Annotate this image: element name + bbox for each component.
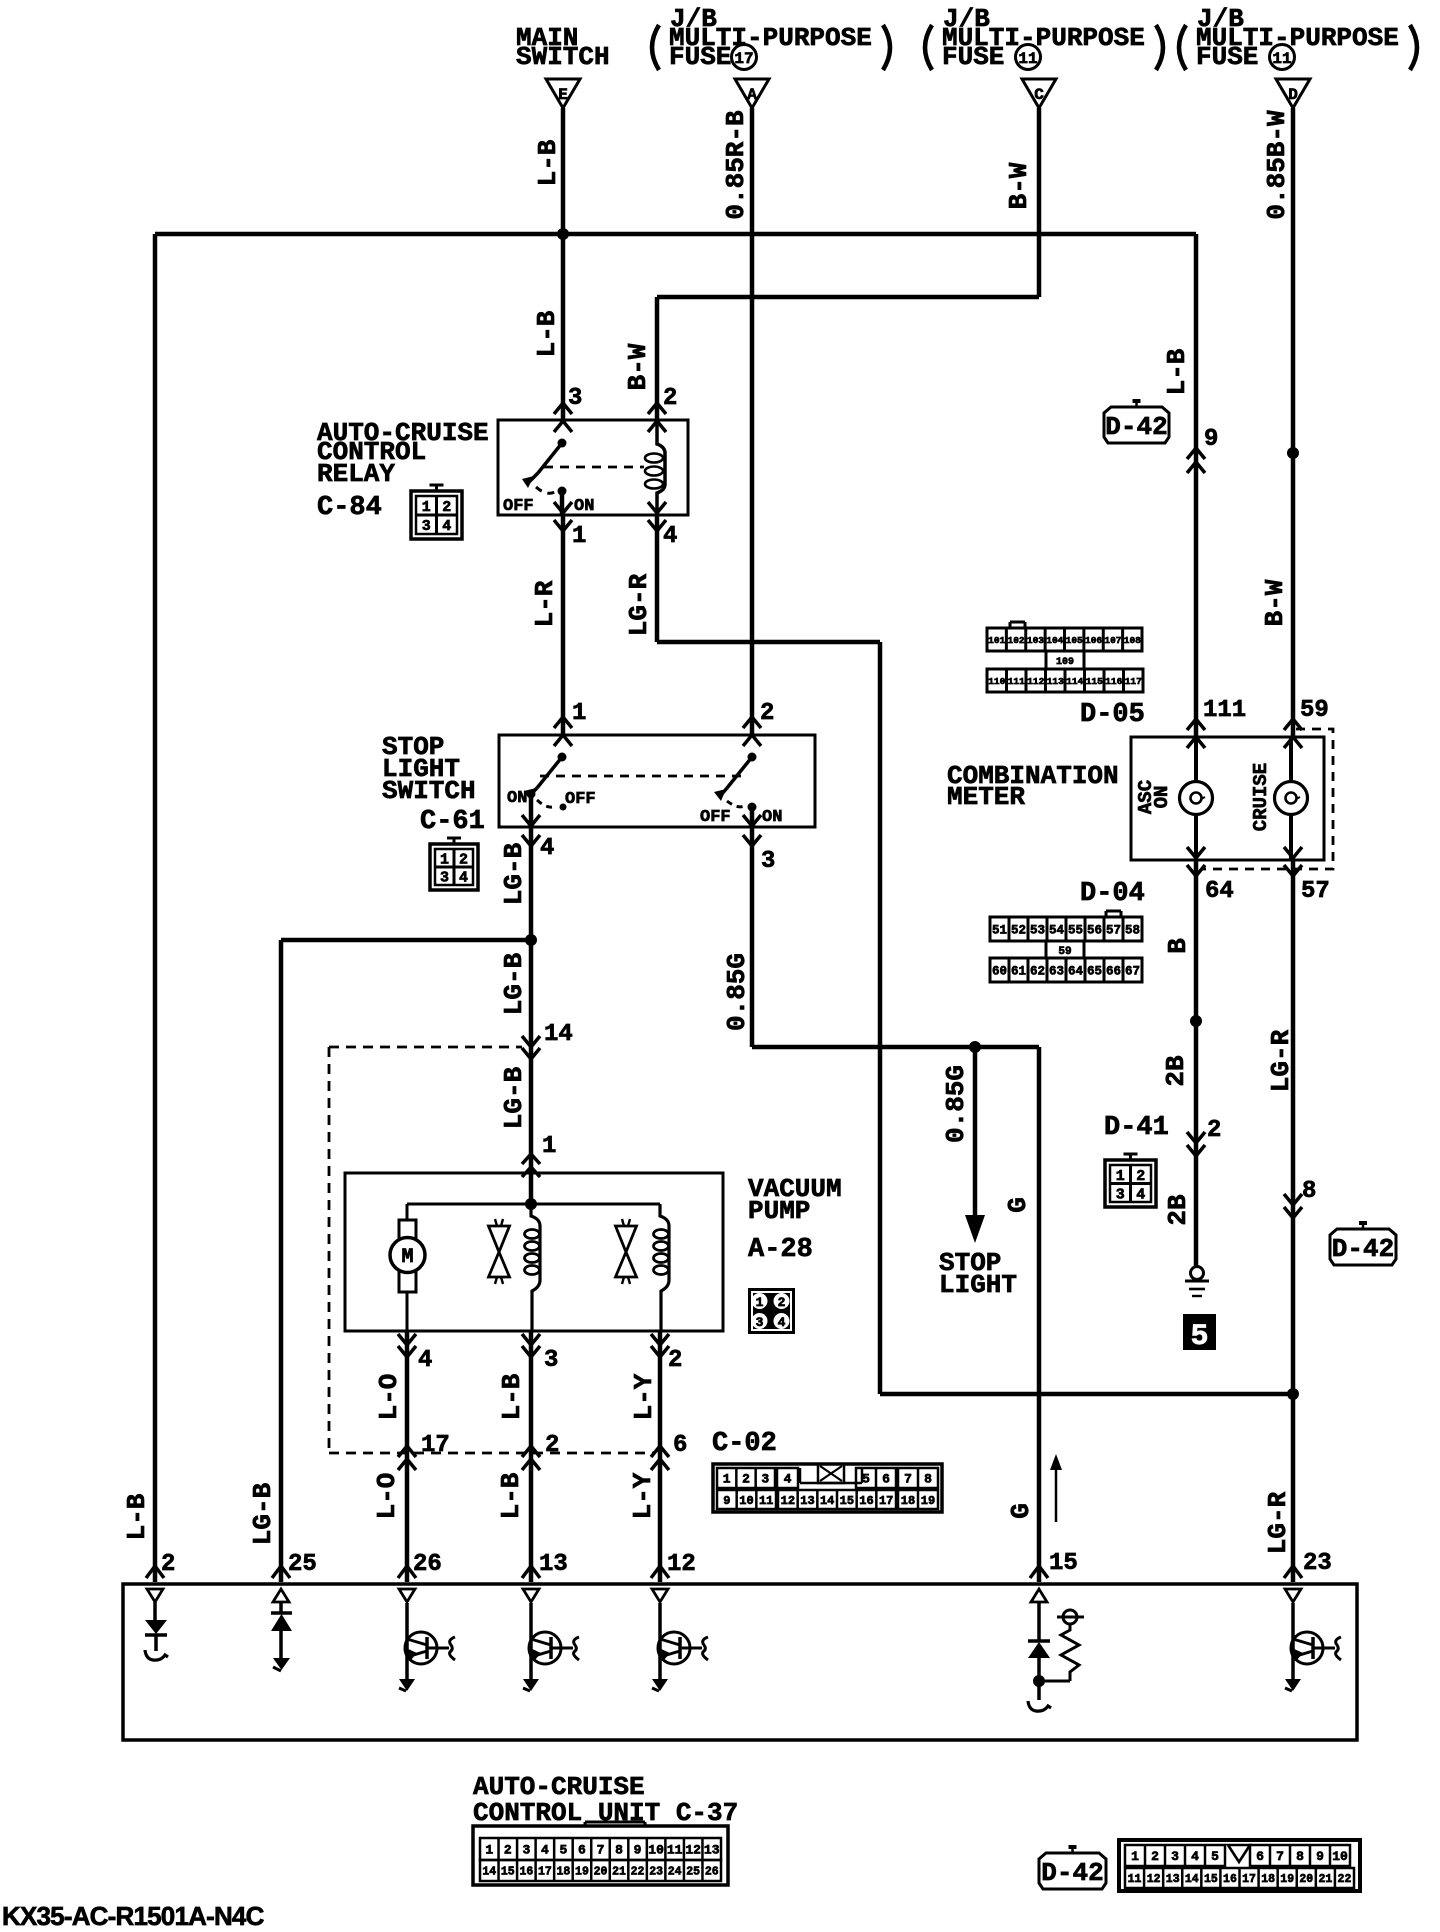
svg-text:26: 26 bbox=[705, 1866, 719, 1879]
svg-text:16: 16 bbox=[859, 1494, 873, 1508]
svg-text:FUSE: FUSE bbox=[1196, 42, 1258, 72]
svg-text:108: 108 bbox=[1124, 635, 1141, 646]
svg-text:2: 2 bbox=[742, 1472, 750, 1487]
svg-text:14: 14 bbox=[820, 1494, 834, 1508]
svg-text:18: 18 bbox=[901, 1494, 915, 1508]
svg-text:L-B: L-B bbox=[122, 1493, 152, 1540]
svg-text:D-04: D-04 bbox=[1080, 879, 1145, 909]
svg-text:2: 2 bbox=[663, 385, 677, 412]
svg-text:2: 2 bbox=[459, 852, 468, 869]
svg-text:104: 104 bbox=[1046, 635, 1063, 646]
svg-text:111: 111 bbox=[1203, 697, 1246, 724]
svg-text:14: 14 bbox=[1185, 1873, 1199, 1886]
svg-text:3: 3 bbox=[422, 518, 431, 535]
svg-text:3: 3 bbox=[756, 1315, 764, 1330]
svg-text:OFF: OFF bbox=[503, 497, 534, 516]
svg-text:105: 105 bbox=[1066, 635, 1083, 646]
svg-text:5: 5 bbox=[1190, 1320, 1208, 1354]
svg-text:5: 5 bbox=[862, 1472, 870, 1487]
svg-text:1: 1 bbox=[572, 700, 586, 727]
svg-text:117: 117 bbox=[1125, 676, 1142, 687]
svg-text:15: 15 bbox=[1049, 1550, 1078, 1577]
svg-text:8: 8 bbox=[615, 1843, 623, 1858]
svg-text:17: 17 bbox=[1242, 1873, 1256, 1886]
svg-text:58: 58 bbox=[1125, 924, 1140, 938]
svg-text:54: 54 bbox=[1049, 924, 1065, 938]
svg-text:15: 15 bbox=[1204, 1873, 1218, 1886]
svg-text:2: 2 bbox=[668, 1347, 682, 1374]
svg-text:19: 19 bbox=[575, 1866, 589, 1879]
svg-text:L-R: L-R bbox=[530, 580, 560, 627]
svg-text:12: 12 bbox=[685, 1843, 701, 1858]
svg-text:L-B: L-B bbox=[496, 1472, 526, 1519]
svg-text:ON: ON bbox=[762, 808, 782, 827]
svg-text:102: 102 bbox=[1008, 635, 1025, 646]
svg-text:11: 11 bbox=[759, 1494, 773, 1508]
svg-text:21: 21 bbox=[1318, 1873, 1332, 1886]
svg-text:ON: ON bbox=[574, 497, 594, 516]
svg-text:63: 63 bbox=[1049, 965, 1064, 979]
svg-text:12: 12 bbox=[1147, 1873, 1161, 1886]
svg-text:4: 4 bbox=[541, 1843, 549, 1858]
svg-text:1: 1 bbox=[422, 499, 431, 516]
svg-text:10: 10 bbox=[1332, 1849, 1348, 1864]
svg-text:7: 7 bbox=[597, 1843, 605, 1858]
svg-text:22: 22 bbox=[1338, 1873, 1352, 1886]
svg-text:OFF: OFF bbox=[565, 790, 596, 809]
svg-text:15: 15 bbox=[840, 1494, 854, 1508]
svg-text:FUSE: FUSE bbox=[942, 42, 1004, 72]
svg-text:2: 2 bbox=[1151, 1849, 1159, 1864]
svg-text:4: 4 bbox=[459, 870, 468, 887]
svg-text:114: 114 bbox=[1066, 676, 1083, 687]
svg-text:9: 9 bbox=[723, 1494, 730, 1508]
svg-text:64: 64 bbox=[1068, 965, 1084, 979]
svg-text:3: 3 bbox=[440, 870, 449, 887]
svg-text:PUMP: PUMP bbox=[748, 1196, 810, 1226]
svg-text:22: 22 bbox=[631, 1866, 645, 1879]
svg-text:113: 113 bbox=[1047, 676, 1064, 687]
svg-text:L-B: L-B bbox=[533, 139, 563, 186]
svg-text:12: 12 bbox=[667, 1551, 696, 1578]
svg-text:15: 15 bbox=[501, 1866, 515, 1879]
svg-text:56: 56 bbox=[1087, 924, 1102, 938]
svg-text:4: 4 bbox=[778, 1315, 786, 1330]
svg-text:111: 111 bbox=[1008, 676, 1025, 687]
svg-text:B-W: B-W bbox=[1004, 162, 1034, 209]
svg-text:11: 11 bbox=[1272, 50, 1291, 68]
svg-text:C-61: C-61 bbox=[420, 807, 485, 837]
svg-text:2B: 2B bbox=[1163, 1194, 1193, 1226]
svg-text:53: 53 bbox=[1030, 924, 1045, 938]
svg-text:61: 61 bbox=[1011, 965, 1026, 979]
svg-text:20: 20 bbox=[594, 1866, 608, 1879]
svg-text:D-41: D-41 bbox=[1104, 1113, 1169, 1143]
svg-text:7: 7 bbox=[1276, 1849, 1284, 1864]
svg-text:LG-B: LG-B bbox=[499, 1066, 529, 1129]
svg-text:4: 4 bbox=[540, 835, 554, 862]
svg-text:0.85G: 0.85G bbox=[941, 1065, 971, 1143]
svg-text:4: 4 bbox=[1191, 1849, 1199, 1864]
svg-text:5: 5 bbox=[560, 1843, 568, 1858]
svg-text:10: 10 bbox=[739, 1494, 753, 1508]
svg-text:RELAY: RELAY bbox=[317, 459, 395, 489]
svg-text:0.85B-W: 0.85B-W bbox=[1262, 110, 1292, 220]
svg-text:11: 11 bbox=[1128, 1873, 1142, 1886]
svg-text:103: 103 bbox=[1027, 635, 1044, 646]
svg-text:B: B bbox=[1163, 938, 1193, 954]
svg-text:1: 1 bbox=[440, 852, 449, 869]
svg-text:FUSE: FUSE bbox=[669, 42, 731, 72]
svg-text:E: E bbox=[558, 86, 568, 104]
svg-text:67: 67 bbox=[1125, 965, 1140, 979]
svg-text:CRUISE: CRUISE bbox=[1250, 763, 1272, 831]
svg-text:8: 8 bbox=[1302, 1178, 1316, 1205]
svg-text:B-W: B-W bbox=[1260, 579, 1290, 626]
svg-text:6: 6 bbox=[578, 1843, 586, 1858]
svg-text:66: 66 bbox=[1106, 965, 1121, 979]
svg-text:6: 6 bbox=[882, 1472, 890, 1487]
svg-text:2: 2 bbox=[504, 1843, 512, 1858]
svg-text:KX35-AC-R1501A-N4C: KX35-AC-R1501A-N4C bbox=[2, 1901, 265, 1931]
svg-text:112: 112 bbox=[1027, 676, 1044, 687]
svg-text:D: D bbox=[1288, 86, 1298, 104]
svg-text:C: C bbox=[1034, 86, 1044, 104]
svg-text:13: 13 bbox=[1166, 1873, 1180, 1886]
svg-text:A: A bbox=[747, 86, 757, 104]
svg-text:21: 21 bbox=[612, 1866, 626, 1879]
svg-text:D-05: D-05 bbox=[1080, 700, 1145, 730]
svg-text:METER: METER bbox=[947, 782, 1025, 812]
svg-text:19: 19 bbox=[921, 1494, 935, 1508]
svg-text:11: 11 bbox=[1018, 50, 1037, 68]
svg-text:L-Y: L-Y bbox=[628, 1472, 658, 1519]
svg-text:1: 1 bbox=[572, 523, 586, 550]
svg-text:59: 59 bbox=[1058, 946, 1071, 958]
svg-text:L-B: L-B bbox=[1162, 348, 1192, 395]
svg-text:3: 3 bbox=[568, 385, 582, 412]
svg-text:52: 52 bbox=[1011, 924, 1026, 938]
svg-text:16: 16 bbox=[1223, 1873, 1237, 1886]
svg-text:C-02: C-02 bbox=[712, 1429, 777, 1459]
svg-text:57: 57 bbox=[1301, 878, 1330, 905]
svg-text:4: 4 bbox=[418, 1347, 432, 1374]
svg-text:9: 9 bbox=[634, 1843, 642, 1858]
svg-text:6: 6 bbox=[673, 1432, 687, 1459]
svg-text:2: 2 bbox=[545, 1432, 559, 1459]
svg-text:L-B: L-B bbox=[532, 310, 562, 357]
svg-text:17: 17 bbox=[421, 1432, 450, 1459]
svg-text:M: M bbox=[401, 1246, 413, 1269]
svg-text:1: 1 bbox=[542, 1133, 556, 1160]
svg-text:3: 3 bbox=[761, 1472, 769, 1487]
svg-text:55: 55 bbox=[1068, 924, 1083, 938]
svg-text:13: 13 bbox=[800, 1494, 814, 1508]
svg-text:10: 10 bbox=[648, 1843, 664, 1858]
svg-text:8: 8 bbox=[1296, 1849, 1304, 1864]
svg-text:0.85G: 0.85G bbox=[722, 953, 752, 1031]
svg-text:2: 2 bbox=[778, 1295, 786, 1310]
svg-text:1: 1 bbox=[1116, 1168, 1125, 1185]
svg-text:ON: ON bbox=[1151, 786, 1173, 809]
svg-text:101: 101 bbox=[988, 635, 1005, 646]
svg-text:13: 13 bbox=[704, 1843, 720, 1858]
svg-text:LG-R: LG-R bbox=[1266, 1029, 1296, 1092]
svg-text:17: 17 bbox=[734, 50, 753, 68]
svg-text:LG-B: LG-B bbox=[499, 842, 529, 905]
svg-text:2: 2 bbox=[442, 499, 451, 516]
svg-text:G: G bbox=[1006, 1503, 1036, 1519]
svg-text:SWITCH: SWITCH bbox=[516, 42, 610, 72]
svg-text:ON: ON bbox=[507, 789, 527, 808]
svg-text:D-42: D-42 bbox=[1105, 412, 1167, 442]
svg-text:0.85R-B: 0.85R-B bbox=[721, 110, 751, 220]
svg-text:3: 3 bbox=[522, 1843, 530, 1858]
svg-text:3: 3 bbox=[1116, 1186, 1125, 1203]
svg-text:107: 107 bbox=[1104, 635, 1121, 646]
svg-text:2: 2 bbox=[760, 700, 774, 727]
svg-text:L-B: L-B bbox=[497, 1373, 527, 1420]
svg-text:4: 4 bbox=[1136, 1186, 1145, 1203]
svg-text:9: 9 bbox=[1316, 1849, 1324, 1864]
svg-text:110: 110 bbox=[988, 676, 1005, 687]
svg-text:25: 25 bbox=[288, 1551, 317, 1578]
svg-text:3: 3 bbox=[761, 848, 775, 875]
svg-text:LG-B: LG-B bbox=[248, 1482, 278, 1545]
svg-text:2: 2 bbox=[1136, 1168, 1145, 1185]
svg-text:SWITCH: SWITCH bbox=[382, 776, 476, 806]
svg-text:116: 116 bbox=[1105, 676, 1122, 687]
svg-text:24: 24 bbox=[668, 1866, 682, 1879]
svg-text:109: 109 bbox=[1056, 657, 1074, 668]
svg-text:LIGHT: LIGHT bbox=[939, 1270, 1017, 1300]
svg-text:7: 7 bbox=[904, 1472, 912, 1487]
svg-text:OFF: OFF bbox=[700, 808, 731, 827]
svg-text:A-28: A-28 bbox=[748, 1235, 813, 1265]
svg-text:20: 20 bbox=[1299, 1873, 1313, 1886]
svg-text:1: 1 bbox=[485, 1843, 493, 1858]
svg-text:23: 23 bbox=[649, 1866, 663, 1879]
svg-text:5: 5 bbox=[1211, 1849, 1219, 1864]
svg-text:12: 12 bbox=[781, 1494, 795, 1508]
svg-text:14: 14 bbox=[544, 1021, 573, 1048]
svg-text:L-O: L-O bbox=[374, 1374, 404, 1421]
svg-text:60: 60 bbox=[992, 965, 1007, 979]
svg-text:L-O: L-O bbox=[372, 1473, 402, 1520]
svg-text:14: 14 bbox=[482, 1866, 496, 1879]
svg-text:1: 1 bbox=[756, 1295, 764, 1310]
svg-text:16: 16 bbox=[519, 1866, 533, 1879]
svg-text:2: 2 bbox=[161, 1551, 175, 1578]
svg-text:D-42: D-42 bbox=[1332, 1234, 1394, 1264]
svg-text:11: 11 bbox=[667, 1843, 683, 1858]
svg-text:LG-R: LG-R bbox=[1263, 1491, 1293, 1554]
svg-text:4: 4 bbox=[442, 518, 451, 535]
svg-text:C-84: C-84 bbox=[317, 493, 382, 523]
svg-text:8: 8 bbox=[924, 1472, 932, 1487]
svg-text:23: 23 bbox=[1303, 1550, 1332, 1577]
svg-text:62: 62 bbox=[1030, 965, 1045, 979]
svg-text:51: 51 bbox=[992, 924, 1007, 938]
svg-text:1: 1 bbox=[1131, 1849, 1139, 1864]
svg-text:D-42: D-42 bbox=[1041, 1858, 1103, 1888]
svg-text:106: 106 bbox=[1085, 635, 1102, 646]
svg-text:115: 115 bbox=[1086, 676, 1103, 687]
svg-text:2B: 2B bbox=[1161, 1055, 1191, 1087]
svg-text:3: 3 bbox=[1171, 1849, 1179, 1864]
svg-text:64: 64 bbox=[1205, 878, 1234, 905]
svg-text:G: G bbox=[1003, 1197, 1033, 1213]
svg-text:4: 4 bbox=[663, 523, 677, 550]
svg-text:B-W: B-W bbox=[623, 343, 653, 390]
svg-text:1: 1 bbox=[723, 1472, 731, 1487]
svg-text:18: 18 bbox=[1261, 1873, 1275, 1886]
svg-text:6: 6 bbox=[1256, 1849, 1264, 1864]
svg-text:65: 65 bbox=[1087, 965, 1102, 979]
svg-text:LG-R: LG-R bbox=[624, 573, 654, 636]
svg-text:4: 4 bbox=[784, 1472, 792, 1487]
svg-text:17: 17 bbox=[538, 1866, 552, 1879]
svg-text:25: 25 bbox=[686, 1866, 700, 1879]
svg-text:17: 17 bbox=[879, 1494, 893, 1508]
svg-text:9: 9 bbox=[1204, 426, 1218, 453]
svg-text:18: 18 bbox=[557, 1866, 571, 1879]
svg-text:L-Y: L-Y bbox=[629, 1373, 659, 1420]
svg-text:13: 13 bbox=[539, 1551, 568, 1578]
svg-text:2: 2 bbox=[1207, 1117, 1221, 1144]
svg-text:LG-B: LG-B bbox=[499, 952, 529, 1015]
svg-text:3: 3 bbox=[544, 1347, 558, 1374]
svg-text:19: 19 bbox=[1280, 1873, 1294, 1886]
svg-text:59: 59 bbox=[1300, 697, 1329, 724]
svg-text:26: 26 bbox=[413, 1551, 442, 1578]
svg-text:57: 57 bbox=[1106, 924, 1121, 938]
